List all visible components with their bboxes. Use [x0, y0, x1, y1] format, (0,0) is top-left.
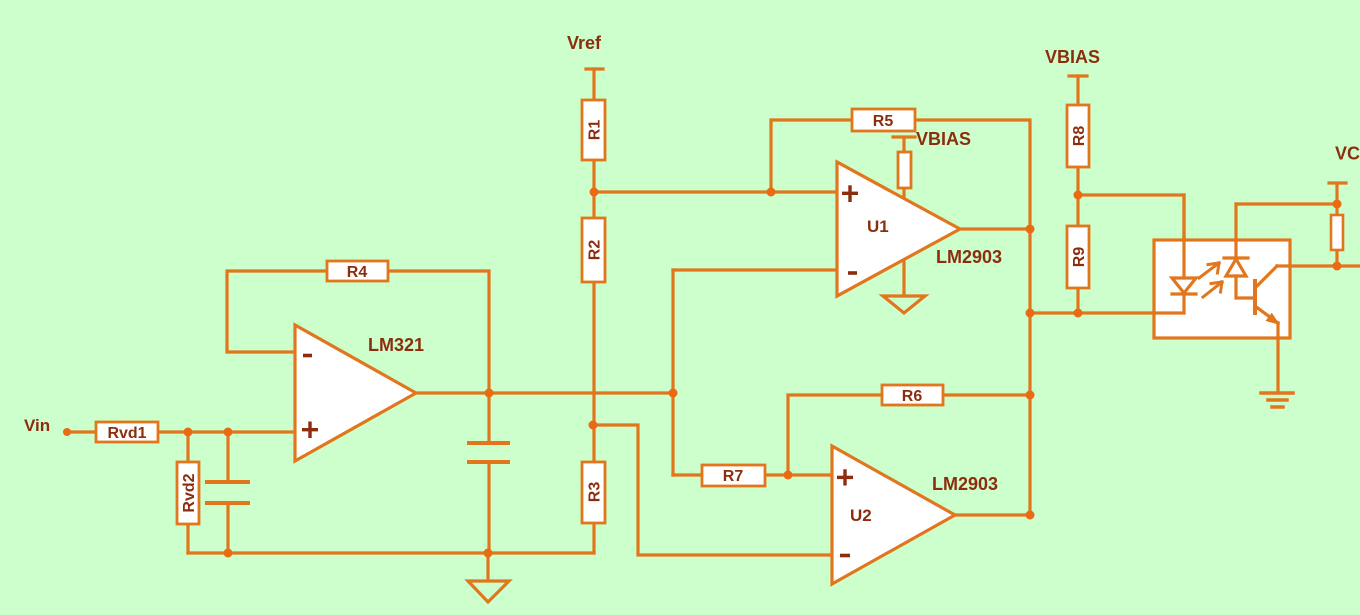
svg-text:R8: R8	[1071, 126, 1088, 147]
svg-text:LM2903: LM2903	[932, 474, 998, 494]
svg-text:Rvd2: Rvd2	[181, 473, 198, 512]
svg-text:U1: U1	[867, 217, 889, 236]
svg-text:U2: U2	[850, 506, 872, 525]
svg-text:R2: R2	[587, 240, 604, 261]
svg-text:LM321: LM321	[368, 335, 424, 355]
svg-text:R5: R5	[873, 113, 894, 130]
svg-text:R4: R4	[347, 264, 368, 281]
svg-text:VC: VC	[1335, 144, 1360, 164]
svg-text:Rvd1: Rvd1	[107, 425, 146, 442]
svg-text:R1: R1	[587, 120, 604, 141]
svg-text:Vin: Vin	[24, 416, 50, 435]
svg-text:VBIAS: VBIAS	[1045, 47, 1100, 67]
svg-text:Vref: Vref	[567, 33, 602, 53]
svg-text:R9: R9	[1071, 247, 1088, 268]
svg-text:R6: R6	[902, 388, 923, 405]
svg-text:VBIAS: VBIAS	[916, 129, 971, 149]
svg-text:LM2903: LM2903	[936, 247, 1002, 267]
svg-text:R3: R3	[587, 482, 604, 503]
svg-text:R7: R7	[723, 468, 744, 485]
